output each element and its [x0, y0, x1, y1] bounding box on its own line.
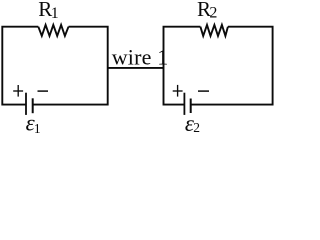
svg-text:1: 1 [51, 5, 59, 22]
resistor R2 [200, 25, 228, 36]
resistor R1 [38, 25, 68, 36]
svg-text:wire 1: wire 1 [112, 44, 169, 69]
battery ε1 long plate (positive terminal) [25, 93, 27, 115]
svg-text:2: 2 [193, 120, 200, 135]
wire 1 (connecting wire between loops) [108, 67, 164, 69]
label ε2 (emf of battery 2) [185, 111, 200, 136]
svg-text:2: 2 [209, 5, 217, 22]
battery ε2 short plate (negative terminal) [190, 99, 192, 114]
polarity plus sign of battery ε1 [13, 90, 23, 92]
polarity plus sign of battery ε2 [173, 90, 183, 92]
svg-text:1: 1 [34, 121, 41, 136]
wire: left loop top-right segment, right edge and bottom-right segment [33, 27, 108, 105]
label ε1 (emf of battery 1) [26, 111, 41, 136]
label wire 1 [112, 44, 169, 69]
wire: right loop top-right segment, right edge and bottom-right segment [191, 27, 273, 105]
polarity minus sign of battery ε1 [38, 90, 49, 92]
label R1 [38, 0, 59, 22]
polarity minus sign of battery ε2 [198, 90, 209, 92]
wire: left loop bottom-left segment, left edge and top-left segment [2, 27, 38, 105]
label R2 [197, 0, 217, 22]
battery ε1 short plate (negative terminal) [32, 98, 34, 113]
battery ε2 long plate (positive terminal) [183, 93, 185, 115]
wire: right loop bottom-left segment, left edge and top-left segment [164, 27, 201, 105]
